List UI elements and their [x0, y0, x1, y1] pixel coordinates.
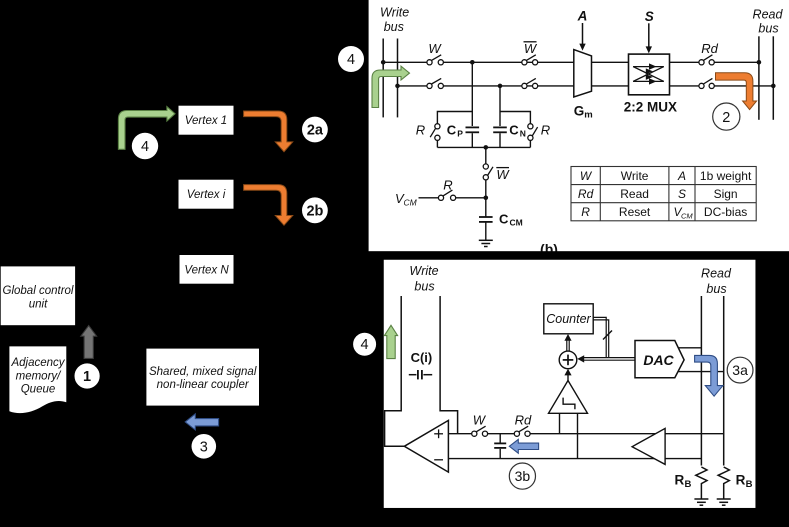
svg-text:bus: bus: [414, 280, 434, 294]
switch Rd row2: [699, 78, 714, 88]
switch Rd row1: [699, 55, 714, 65]
node 3 circle: [192, 434, 217, 459]
svg-text:R: R: [581, 205, 590, 219]
svg-text:1b weight: 1b weight: [700, 169, 752, 183]
block Vertex i: [179, 180, 234, 209]
svg-text:non-linear coupler: non-linear coupler: [157, 379, 250, 391]
switch R (VCM): [438, 190, 455, 200]
wire CCM to ground: [485, 222, 487, 240]
wire DAC to read bus top: [678, 347, 701, 349]
svg-text:S: S: [645, 9, 654, 24]
node 2b circle: [302, 197, 328, 223]
junction CN top: [498, 84, 503, 89]
wire common node down: [485, 147, 487, 164]
switch W: [472, 426, 488, 436]
legend text row 2: [578, 187, 738, 201]
blue arrow left (step 3b): [509, 439, 538, 453]
switch R left: [430, 124, 440, 141]
node 4 circle (top, at panel edge): [338, 46, 364, 72]
node 3a circle: [727, 357, 753, 383]
gray arrow (queue to control unit): [81, 326, 97, 359]
wire read bus line 2: [772, 36, 774, 120]
top schematic panel background: [369, 0, 789, 251]
svg-text:Write: Write: [409, 264, 438, 278]
svg-text:A: A: [677, 169, 686, 183]
comparator output arrow to adder: [567, 371, 569, 381]
svg-text:S: S: [678, 187, 686, 201]
junction CP top: [470, 60, 475, 65]
junction read bus row1: [757, 60, 762, 65]
svg-text:Read: Read: [701, 267, 732, 281]
junction common node: [484, 145, 489, 150]
amplifier Gm: [574, 50, 592, 97]
svg-text:Rd: Rd: [515, 413, 532, 428]
block Adjacency memory / Queue (document shape): [9, 346, 66, 413]
svg-text:Sign: Sign: [714, 187, 738, 201]
svg-text:2b: 2b: [306, 203, 323, 219]
svg-text:Counter: Counter: [546, 312, 591, 326]
switch W row2: [427, 78, 444, 88]
wire MUX out row1: [670, 61, 699, 63]
orange elbow arrow 2a: [244, 111, 293, 152]
wire Gm to MUX row2: [592, 85, 629, 87]
wire: row 2 (write side): [398, 85, 427, 87]
svg-text:Read: Read: [753, 7, 784, 21]
buffer triangle (read): [632, 428, 665, 464]
svg-text:Read: Read: [620, 187, 649, 201]
junction write bus row1: [381, 60, 386, 65]
hysteresis icon: [563, 398, 575, 410]
svg-text:DC-bias: DC-bias: [704, 205, 747, 219]
svg-text:3b: 3b: [515, 468, 531, 484]
svg-text:Write: Write: [380, 6, 409, 20]
svg-text:2:2 MUX: 2:2 MUX: [624, 99, 677, 114]
green elbow arrow (into Vertex 1): [118, 107, 175, 150]
DAC block: [635, 341, 684, 378]
switch Wbar row2: [522, 78, 538, 88]
resistor RB left: [696, 467, 707, 499]
svg-text:bus: bus: [384, 20, 404, 34]
wire Rd to read bus row1: [714, 61, 759, 63]
counter box: [544, 304, 593, 334]
svg-text:CM: CM: [510, 218, 523, 228]
svg-text:W: W: [580, 169, 593, 183]
opamp minus pin: [434, 459, 443, 461]
wire read bus line 2: [723, 296, 725, 466]
svg-text:Adjacency: Adjacency: [10, 357, 65, 369]
svg-text:4: 4: [361, 337, 369, 353]
switch Rd: [514, 426, 530, 436]
svg-text:1: 1: [83, 369, 91, 385]
capacitor C(i): [409, 370, 432, 379]
wire CN branch vertical: [499, 86, 501, 126]
svg-text:bus: bus: [758, 22, 778, 36]
svg-text:C: C: [509, 122, 519, 137]
svg-text:Shared, mixed signal: Shared, mixed signal: [149, 366, 257, 378]
svg-text:G: G: [574, 104, 585, 119]
wire DAC to read bus bottom: [679, 371, 724, 373]
svg-text:W: W: [428, 41, 442, 56]
legend text row 3: [581, 205, 747, 221]
switch W row1: [427, 55, 444, 65]
svg-text:R: R: [736, 473, 746, 488]
svg-text:Reset: Reset: [619, 205, 651, 219]
capacitor (sampling): [494, 434, 506, 459]
legend text row 1: [580, 169, 752, 183]
svg-text:W: W: [496, 167, 510, 182]
svg-text:Vertex 1: Vertex 1: [185, 115, 227, 127]
svg-text:P: P: [457, 128, 463, 138]
wire VCM switch to node: [456, 197, 486, 199]
junction read bus row2: [771, 84, 776, 89]
svg-text:memory/: memory/: [16, 370, 63, 382]
svg-text:R: R: [443, 178, 452, 193]
svg-text:Rd: Rd: [578, 187, 594, 201]
node 3b circle: [509, 463, 535, 489]
svg-text:W: W: [473, 413, 487, 428]
switch Wbar (vertical): [483, 164, 493, 180]
svg-text:DAC: DAC: [643, 352, 674, 368]
mux 2:2 box: [629, 54, 670, 95]
capacitor CN: [493, 127, 507, 132]
svg-text:A: A: [577, 9, 588, 24]
svg-text:B: B: [685, 479, 692, 490]
svg-text:B: B: [746, 479, 753, 490]
svg-text:Vertex N: Vertex N: [184, 264, 229, 276]
wire: row 1 (write side): [383, 61, 427, 63]
mux crossbar icon: [633, 67, 664, 82]
orange elbow arrow 2b: [244, 185, 293, 226]
bus adder to counter (double line + arrow): [567, 339, 569, 352]
black separator band: [369, 251, 789, 257]
comparator input taps: [559, 413, 561, 433]
svg-text:2: 2: [722, 110, 730, 126]
resistor RB right: [718, 467, 729, 499]
blue arrow (coupler to left, step 3): [185, 414, 218, 430]
bus DAC to adder (double line): [584, 317, 636, 360]
pin S arrow: [648, 23, 650, 47]
block Vertex N: [180, 255, 234, 284]
wire MUX out row2: [670, 85, 699, 87]
green elbow arrow (write-in, step 4): [372, 66, 410, 107]
svg-text:C(i): C(i): [411, 350, 433, 365]
svg-text:W: W: [524, 41, 538, 56]
svg-text:Vertex i: Vertex i: [187, 189, 226, 201]
svg-text:R: R: [541, 123, 550, 138]
svg-text:unit: unit: [29, 298, 48, 310]
pin A arrow: [582, 23, 584, 45]
svg-text:4: 4: [347, 52, 355, 68]
block Vertex 1: [179, 106, 234, 135]
node 4 circle (by green arrow): [132, 133, 158, 159]
svg-text:Write: Write: [621, 169, 649, 183]
wire reset bracket top-left: [437, 112, 472, 124]
ground (RB right): [717, 499, 731, 505]
ground (CCM): [479, 240, 493, 246]
svg-text:N: N: [520, 128, 526, 138]
switch Wbar row1: [522, 55, 538, 65]
switch R right: [528, 124, 538, 141]
svg-text:CM: CM: [404, 198, 418, 208]
svg-text:3a: 3a: [732, 362, 748, 378]
svg-text:C: C: [447, 122, 457, 137]
wire read bus line 1: [758, 36, 760, 120]
wire Gm to MUX row1: [592, 61, 629, 63]
node 1 circle: [75, 363, 100, 388]
svg-text:bus: bus: [706, 282, 726, 296]
svg-text:R: R: [416, 123, 425, 138]
svg-text:Rd: Rd: [701, 41, 718, 56]
panel frame: [383, 259, 757, 510]
wire noninverting input row: [448, 433, 471, 435]
wire read bus line 1: [700, 296, 702, 466]
capacitor CP: [466, 127, 480, 132]
wire reset bracket top-right: [500, 112, 530, 124]
svg-text:CM: CM: [681, 212, 693, 221]
comparator (Schmitt) triangle: [549, 381, 588, 414]
bus width slash: [603, 331, 612, 340]
adder (+): [559, 351, 577, 369]
svg-text:Queue: Queue: [21, 384, 56, 396]
junction write bus row2: [395, 84, 400, 89]
block Global control unit: [1, 266, 75, 325]
wire: write bus line 1: [382, 39, 384, 118]
block Shared mixed-signal non-linear coupler: [146, 349, 259, 406]
blue elbow arrow (step 3a): [695, 355, 723, 396]
op-amp U1 (write driver): [404, 420, 448, 472]
opamp plus pin: [434, 429, 443, 438]
legend table: [571, 167, 756, 221]
wire CP branch vertical: [471, 62, 473, 126]
node 2 circle: [713, 103, 740, 130]
wire: write bus line 2: [397, 39, 399, 118]
wire to VCM node: [485, 180, 487, 217]
svg-text:m: m: [584, 109, 592, 120]
svg-text:4: 4: [141, 139, 149, 155]
wire VCM lead: [419, 197, 439, 199]
ground (RB left): [694, 499, 708, 505]
wire Rd to read bus row2: [714, 85, 773, 87]
wire write bus line 2 + to plus input: [440, 296, 458, 434]
wire reset bracket bottom: [437, 146, 530, 148]
node 4 circle (right, by bottom panel): [353, 333, 376, 356]
orange elbow arrow (read-out, step 2): [716, 73, 757, 110]
green arrow up (step 4): [384, 325, 397, 358]
node 2a circle: [302, 117, 328, 143]
svg-text:C: C: [499, 211, 509, 226]
svg-text:Global control: Global control: [3, 285, 74, 297]
svg-text:3: 3: [200, 439, 208, 455]
wire inverting input row: [448, 458, 701, 460]
svg-text:R: R: [675, 473, 685, 488]
wire write bus line 1 + opamp output feedback: [385, 296, 405, 446]
svg-text:2a: 2a: [307, 123, 324, 139]
capacitor CCM: [479, 217, 493, 222]
junction VCM node: [484, 196, 489, 201]
